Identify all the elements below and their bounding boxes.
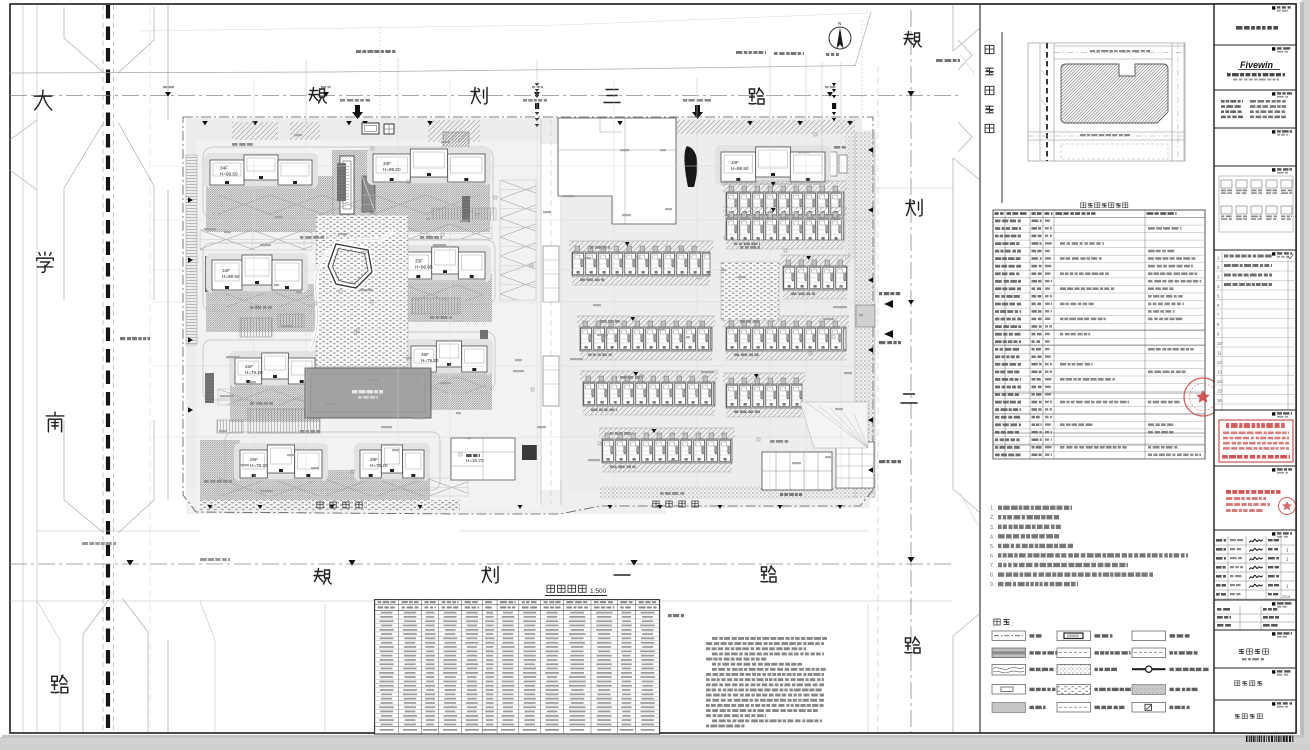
tower 7#楼 26F [234,443,328,481]
townhouse row 4 [780,255,850,266]
svg-text:34F: 34F [383,161,391,166]
map hatched site parcel [1061,64,1168,123]
title block strip [1214,4,1296,733]
plan title [547,585,555,592]
right road 规划二路 [910,10,912,732]
townhouse row 1 [723,181,847,192]
strip section: 合作设计 [1214,127,1296,129]
公园绿地 label east [653,501,659,507]
svg-text:26F: 26F [370,457,378,462]
legend item r1c1 [992,631,1026,641]
road name 规划二路 (right) [904,32,921,48]
svg-text:1:500: 1:500 [590,588,607,595]
svg-text:5.: 5. [990,544,994,550]
区位示意图 vertical label [985,45,994,53]
barcode [1246,736,1248,743]
svg-text:H=99.50: H=99.50 [383,167,401,172]
tower 4#楼 33F [399,245,491,282]
strip section: 设计单位 + logo [1214,44,1296,46]
strip section: 装配式建筑diagrams [1214,165,1296,167]
svg-text:11: 11 [1217,351,1222,356]
svg-text:13: 13 [1217,370,1222,375]
red round stamp [1184,378,1222,416]
sheet fold marks [958,40,972,152]
hatched garden aprons around towers [206,176,334,232]
tower 9#楼 34F (NE) [715,145,831,185]
strip section: 建设单位 [1214,3,1296,5]
courtyard stipple square [721,262,779,320]
legend item r4c2 [1057,685,1091,695]
top road centerline [10,95,960,97]
svg-text:H=79.20: H=79.20 [421,358,439,363]
svg-text:9.: 9. [990,582,994,588]
west hatch ladder strip [186,155,197,345]
svg-text:14: 14 [1217,379,1222,384]
map lower parcel [1061,144,1168,159]
townhouse row 2 [723,207,847,218]
tower 3#楼 34F [206,253,308,293]
central access road [541,120,561,505]
location map frame [1028,43,1185,161]
svg-text:2.: 2. [990,515,994,521]
right cluster base [562,130,857,492]
svg-text:2019: 2019 [1282,595,1290,599]
svg-text:1.: 1. [990,506,994,512]
kindergarten yard fan [800,402,868,448]
tower 6#楼 26F [405,339,493,375]
notes paragraph 备注 [712,637,718,640]
svg-text:H=10.70: H=10.70 [466,458,484,463]
top road 规划三路 north edge [10,66,855,74]
road name 大学南路 [34,90,52,110]
tower 2#楼 34F [367,147,491,185]
svg-text:6.: 6. [990,554,994,560]
townhouse row 3 [569,241,713,252]
intersection chamfers west top [10,7,154,732]
map top road [1054,46,1185,59]
legend item r2c3 [1132,648,1166,658]
townhouse row 5 [577,316,715,327]
legend item r5c2 [1057,703,1091,713]
south stipple band [600,486,858,499]
clubhouse 会所 [451,438,515,480]
main economic index table [993,210,1205,459]
svg-text:H=99.50: H=99.50 [222,274,240,279]
map left road with heavy dash [1040,43,1054,161]
svg-text:7.: 7. [990,563,994,569]
legend 图例 [994,619,1000,625]
road 大学南路 heavy dashed centerline [106,5,110,732]
internal curvy path outlines left cluster [203,147,495,490]
svg-text:15: 15 [1217,389,1222,394]
公园绿地 label west [317,502,323,508]
svg-text:26F: 26F [421,352,429,357]
panel divider rule [1001,32,1003,203]
strip section: 注册章 red block [1214,465,1296,467]
townhouse row 7 [580,371,718,382]
svg-text:12: 12 [1217,360,1222,365]
sunken plaza east [856,305,875,327]
road 大学南路 west edge lines [23,5,37,732]
map mid horizontal road [1028,132,1185,140]
black teardrop feature [684,146,697,187]
svg-text:10: 10 [1217,341,1222,346]
dimension leader lines [306,57,841,188]
svg-text:H=79.20: H=79.20 [370,463,388,468]
boundary entrance marks [202,121,208,125]
parking rows (crosshatch) [218,195,480,215]
svg-text:33F: 33F [415,259,423,264]
svg-text:4.: 4. [990,534,994,540]
legend item r4c3 [1132,685,1166,695]
construction grid lines [152,78,872,502]
gatehouse boxes [362,123,379,134]
north boundary hatch strips [232,122,278,140]
entrance mark column x537 [535,83,539,86]
svg-text:8.: 8. [990,573,994,579]
pond [328,244,372,288]
tower 5#楼 26F [229,351,321,387]
kindergarten 幼儿园 [762,452,832,490]
bottom road parcels south [37,601,868,732]
tower 8#楼 26F [354,443,430,481]
bottom building schedule table [375,600,660,734]
legend item r1c2 [1057,631,1091,641]
svg-text::: : [1012,621,1014,628]
strip section: certificates [1214,89,1296,91]
entrance mark column x834 [832,83,836,86]
svg-text:26F: 26F [245,364,253,369]
panel partition line x=980 [979,4,981,733]
svg-text:34F: 34F [222,268,230,273]
svg-text:Fivewin: Fivewin [1240,60,1274,70]
red line extension dotted [380,20,862,117]
map right road [1172,43,1184,161]
legend item r1c3 [1132,631,1166,641]
legend item r5c3 [1132,703,1166,713]
strip section: 出图章 red stamp [1214,409,1296,411]
svg-text:H=99.50: H=99.50 [220,172,238,177]
bottom road 规划一路 [37,530,868,532]
svg-text:H=79.20: H=79.20 [250,463,268,468]
site perimeter walkway bands [186,118,862,144]
strip section: drawing name 2 [1214,699,1296,701]
road name 规划三路 (top) [309,88,326,104]
townhouse row 8 [723,373,805,384]
strip section: drawing name 总平面图 [1214,667,1296,669]
tower 1#楼 34F [204,153,318,188]
legend item r4c1 [992,685,1026,695]
svg-text:H=99.50: H=99.50 [731,166,749,171]
site red line (用地红线) [183,117,873,514]
svg-text:34F: 34F [220,166,228,171]
legend item r5c1 [992,703,1026,713]
strip section: numbered revision table [1214,249,1296,251]
school big white building [558,118,676,224]
legend item r3c1 [992,665,1026,676]
centerline survey marks [165,92,171,97]
townhouse row 9 [599,428,735,439]
strip section: signatures [1214,529,1296,531]
svg-text:H=96.65: H=96.65 [415,265,433,270]
legend item r2c2 [1057,648,1091,658]
legend item r3c2 [1057,665,1091,675]
SE corner block [836,442,874,488]
left cluster base [196,140,541,508]
sunken plaza dark box (室外活动场地) [305,368,431,418]
central landscape park (stipple) [316,215,408,367]
east entrance arrows [884,300,893,308]
road name 规划一路 (bottom) [314,569,331,585]
compass north arrow [829,27,851,49]
svg-text:34F: 34F [731,160,739,165]
parking ladder canopies [248,409,320,433]
scattered annotation noise [513,370,524,372]
svg-text:16: 16 [1217,398,1222,403]
svg-text:N: N [838,21,841,26]
svg-text:3.: 3. [990,525,994,531]
legend item r3c3 [1132,668,1166,670]
east stipple band [855,132,875,498]
strip section: project name [1214,629,1296,631]
NE small blocks [828,152,837,176]
garage ramps (dark bars) [205,256,214,292]
main entrance arrows top [355,105,360,113]
townhouse row 6 [723,316,849,327]
central ramp strip between towers [332,150,374,232]
strip section: 图名 scale table [1214,599,1296,601]
map road name dots [1090,50,1095,52]
small annotation labels [232,143,238,146]
主要经济技术指标表 title [1081,203,1086,208]
small commercial block dark [522,445,537,460]
legend item r2c1 [992,648,1026,658]
